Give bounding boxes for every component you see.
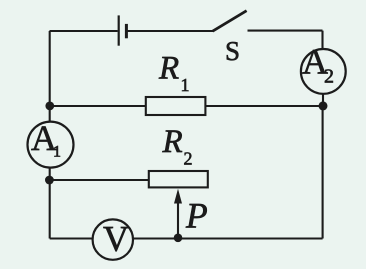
ammeter A1 circle — [28, 122, 74, 168]
svg-text:2: 2 — [184, 149, 193, 169]
switch S blade — [213, 11, 247, 32]
wire A1 to node C — [49, 167, 51, 180]
wire right rail down to ammeter A2 — [321, 31, 323, 50]
rheostat wiper arrow head — [174, 189, 182, 204]
wire left rail top — [49, 31, 51, 106]
wire right rail lower — [322, 106, 324, 239]
wire switch to top-right corner — [248, 30, 323, 32]
rheostat wiper arrow stem — [177, 202, 179, 238]
svg-text:S: S — [225, 36, 240, 66]
node B junction dot — [319, 101, 328, 110]
ammeter A2 circle — [301, 49, 346, 94]
node A junction dot — [45, 102, 54, 111]
svg-text:2: 2 — [324, 66, 334, 88]
wire node A to resistor R1 — [50, 105, 146, 107]
resistor R1 body — [146, 97, 206, 115]
battery short plate (-) — [125, 24, 128, 38]
battery long plate (+) — [118, 15, 120, 45]
wire node A to ammeter A1 — [49, 106, 51, 122]
wire battery to switch — [128, 30, 214, 32]
svg-text:V: V — [103, 219, 129, 259]
svg-text:1: 1 — [181, 75, 190, 95]
voltmeter V circle — [93, 219, 133, 259]
svg-text:R: R — [158, 51, 179, 87]
wire top-left horizontal — [50, 30, 118, 32]
wire bottom-left to voltmeter — [50, 237, 93, 239]
rheostat R2 body — [149, 171, 208, 187]
wire A2 to node B — [322, 94, 324, 106]
wire node C to rheostat R2 — [50, 179, 149, 181]
svg-text:R: R — [162, 124, 183, 160]
wire R1 to node B — [205, 105, 322, 107]
node P wiper junction dot — [174, 234, 183, 243]
svg-text:1: 1 — [53, 144, 61, 161]
node C junction dot — [45, 176, 54, 185]
wire voltmeter to node P junction and bottom-right corner — [133, 237, 323, 239]
svg-text:P: P — [185, 196, 208, 236]
wire left rail lower — [49, 180, 51, 239]
